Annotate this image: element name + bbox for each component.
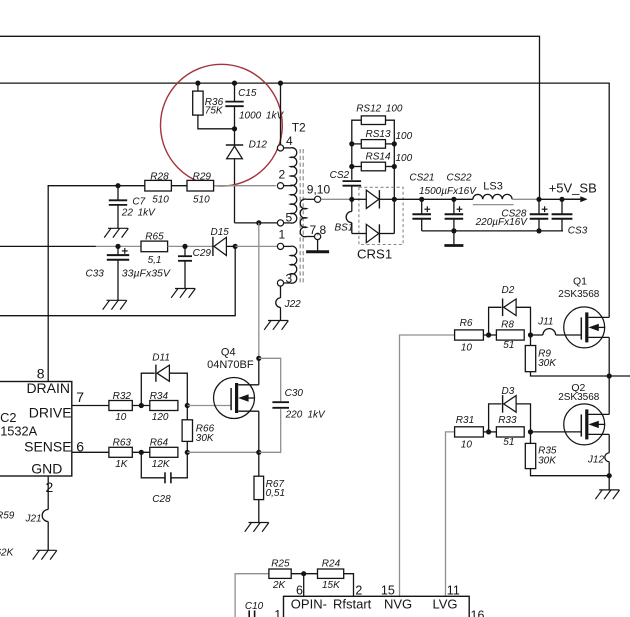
label C10	[245, 601, 264, 612]
svg-text:220: 220	[285, 410, 303, 421]
svg-text:R33: R33	[498, 415, 517, 426]
label R9 value 30K	[538, 358, 557, 369]
label CS28 value 220µFx16V	[475, 217, 529, 228]
transformer T2 core (dashed)	[300, 149, 303, 285]
node junction R67 top	[256, 450, 261, 455]
label C30	[285, 388, 304, 399]
svg-text:510: 510	[152, 194, 169, 205]
svg-text:GND: GND	[31, 461, 62, 477]
label IC2 DRIVE	[29, 405, 72, 421]
svg-text:R64: R64	[150, 438, 169, 449]
svg-text:RS12: RS12	[356, 103, 381, 114]
label C15 value 1000 1kV	[239, 111, 284, 122]
label LVG	[433, 597, 458, 612]
op-amp/controller IC2 box	[0, 382, 72, 477]
label R32 value 10	[115, 412, 127, 423]
wire drive-transformer row (y=185.7) with corner to IC2 pin8	[48, 186, 276, 382]
wire R25 left feed	[235, 574, 269, 617]
node junction Q4 drain / C30	[256, 356, 261, 361]
label R29 value 510	[193, 194, 210, 205]
wire RS left rail	[352, 120, 362, 180]
svg-text:2: 2	[355, 583, 362, 597]
capacitor CS21	[412, 199, 431, 231]
svg-text:T2: T2	[292, 120, 306, 134]
label Q1 type 2SK3568	[558, 289, 600, 300]
wire D12 to T2 pin5	[235, 222, 278, 224]
resistor R29	[187, 180, 214, 191]
label Rfstart	[333, 597, 372, 612]
wire R24 to Rfstart pin	[344, 574, 354, 597]
ground CS22 (earth bar)	[444, 231, 463, 246]
svg-text:15: 15	[381, 583, 395, 597]
svg-text:62K: 62K	[0, 547, 15, 558]
svg-text:1532A: 1532A	[0, 424, 37, 439]
resistor RS14	[352, 162, 395, 171]
label RS14 value 100	[396, 153, 413, 164]
svg-text:R6: R6	[460, 318, 473, 329]
svg-text:2SK3568: 2SK3568	[558, 289, 600, 300]
svg-text:11: 11	[447, 583, 460, 597]
label J12	[587, 454, 605, 465]
label R35	[538, 446, 557, 457]
label C29	[193, 248, 212, 259]
svg-text:Q4: Q4	[221, 347, 236, 359]
wire Q2 drain up	[608, 376, 610, 414]
node junction R64/C28/R66	[185, 450, 190, 455]
svg-text:J22: J22	[284, 299, 302, 310]
transistor Q4 04N70BF	[214, 378, 259, 419]
wire gate feed to Q4	[187, 405, 231, 407]
svg-text:R29: R29	[193, 171, 212, 182]
label CS28 plus	[542, 206, 548, 212]
wire top rail net2 (y=83)	[0, 83, 609, 317]
label pin 3	[286, 272, 293, 286]
capacitor C29	[178, 246, 192, 288]
node junction Q1 source / Q2 drain	[607, 373, 612, 378]
inductor LS3	[473, 194, 514, 204]
node junction CS22 top	[451, 197, 456, 202]
label pin 2 (connector)	[355, 583, 362, 597]
wire IC2 pin7 to R32	[72, 405, 109, 407]
node junction Q2 source / R35	[607, 473, 612, 478]
label R32	[113, 391, 132, 402]
transformer T2 secondary winding 9,10-7,8	[300, 199, 314, 237]
label CS21 value 1500µFx16V	[419, 186, 477, 197]
highlight red circle	[161, 64, 283, 186]
label R31	[456, 415, 474, 426]
wire sense row left (y=246.4)	[0, 245, 141, 247]
svg-text:1kV: 1kV	[138, 208, 157, 219]
node junction CS21 top	[419, 197, 424, 202]
svg-text:1: 1	[274, 608, 281, 617]
label C15	[238, 88, 257, 99]
wire Q4 drain up	[258, 358, 260, 385]
svg-text:51: 51	[503, 340, 514, 351]
wire R6-R8	[483, 334, 496, 336]
svg-text:5,1: 5,1	[148, 255, 162, 266]
svg-text:1kV: 1kV	[308, 410, 327, 421]
svg-text:10: 10	[115, 412, 127, 423]
svg-text:J12: J12	[587, 454, 605, 465]
label R36	[205, 97, 224, 108]
label C7	[132, 197, 145, 208]
svg-text:C30: C30	[285, 388, 304, 399]
capacitor C7	[109, 186, 127, 229]
jumper J22	[276, 286, 281, 320]
ground Q2 source	[595, 490, 619, 499]
label C30 value 220 1kV	[285, 410, 326, 421]
capacitor CS2	[343, 181, 362, 199]
node junction R33/D3/R35	[528, 429, 533, 434]
label Q2	[571, 382, 585, 394]
node junction rectifier output	[392, 197, 397, 202]
label Q2 type 2SK3568	[558, 392, 600, 403]
svg-text:7,8: 7,8	[310, 223, 327, 237]
svg-text:J11: J11	[537, 316, 553, 327]
node junction D15 anode	[233, 244, 238, 249]
label pin 9,10	[307, 182, 331, 196]
transistor Q1 2SK3568	[564, 307, 610, 348]
label CS28	[501, 209, 526, 220]
label R29	[193, 171, 212, 182]
jumper J11	[531, 329, 582, 335]
label NVG	[384, 597, 412, 612]
capacitor CS28	[530, 199, 549, 231]
svg-text:10: 10	[461, 343, 473, 354]
label C28	[152, 494, 171, 505]
svg-text:R31: R31	[456, 415, 474, 426]
diode D11 bypass loop	[141, 365, 187, 406]
svg-text:DRAIN: DRAIN	[26, 380, 70, 396]
svg-text:SENSE: SENSE	[24, 438, 71, 454]
resistor R64	[150, 447, 178, 457]
label IC2 GND	[31, 461, 62, 477]
label D3	[502, 386, 515, 397]
wire IC2 pin6 to R63	[72, 451, 109, 453]
svg-text:NVG: NVG	[384, 597, 412, 612]
label R25	[271, 559, 290, 570]
capacitor C30 snubber	[259, 358, 289, 452]
label R28	[150, 171, 169, 182]
svg-text:2: 2	[46, 479, 54, 495]
wire D15 junction down to DRAIN line	[0, 246, 235, 315]
wire RS right rail	[386, 120, 395, 233]
svg-text:6: 6	[296, 583, 303, 597]
label pin 1 (connector, cut)	[274, 608, 281, 617]
resistor RS12	[361, 116, 385, 125]
label CS3	[568, 225, 588, 236]
label R67 value 0,51	[266, 488, 285, 499]
wire Q1 source down	[608, 337, 610, 376]
capacitor CS3	[552, 199, 573, 231]
svg-text:LS3: LS3	[483, 181, 503, 193]
svg-text:510: 510	[193, 194, 210, 205]
label C33	[86, 269, 105, 280]
svg-text:22: 22	[121, 208, 134, 219]
label pin 16 (connector)	[471, 609, 485, 617]
label J11	[537, 316, 553, 327]
label R66	[196, 424, 215, 435]
resistor RS13	[352, 140, 395, 149]
svg-text:CS22: CS22	[447, 173, 472, 184]
transformer T2 pin 2	[277, 183, 292, 189]
transformer T2 primary winding 4-2-5	[291, 148, 297, 223]
svg-text:C7: C7	[132, 197, 145, 208]
svg-text:30K: 30K	[196, 433, 215, 444]
resistor R31	[455, 427, 484, 437]
node junction bottom rail CS22	[451, 228, 456, 233]
label C33 plus	[122, 248, 128, 254]
label CRS1	[357, 246, 392, 261]
label pin 1	[279, 228, 286, 242]
wire +5V_SB	[539, 198, 560, 200]
svg-text:2: 2	[279, 167, 286, 181]
svg-text:C33: C33	[86, 269, 105, 280]
ground C29	[171, 289, 195, 298]
svg-text:R59: R59	[0, 510, 15, 521]
svg-text:2SK3568: 2SK3568	[558, 392, 600, 403]
node junction R32/R34/D11	[139, 403, 144, 408]
label R33 value 51	[503, 437, 514, 448]
transformer T2 pin 5	[277, 220, 290, 226]
svg-text:5: 5	[286, 210, 293, 224]
svg-text:0,51: 0,51	[266, 488, 285, 499]
wire IC2 GND pin2	[47, 476, 49, 510]
resistor R9	[525, 335, 609, 376]
label pin 8	[37, 366, 45, 382]
svg-text:CS2: CS2	[330, 170, 350, 181]
svg-text:D11: D11	[152, 353, 170, 364]
node junction R31/R33/D3	[486, 429, 491, 434]
diode D12 (cathode up)	[226, 129, 243, 223]
label R8	[501, 320, 514, 331]
label R63	[113, 438, 132, 449]
label R31 value 10	[461, 440, 473, 451]
svg-text:100: 100	[396, 131, 413, 142]
label R8 value 51	[503, 340, 514, 351]
ground J22	[264, 321, 288, 330]
label R34	[150, 391, 169, 402]
label R24 value 15K	[322, 580, 341, 591]
diode D15 (cathode left)	[213, 237, 235, 256]
label RS13	[366, 129, 391, 140]
svg-text:C28: C28	[152, 494, 171, 505]
resistor R66	[182, 406, 192, 453]
label R65	[145, 231, 164, 242]
label R33	[498, 415, 517, 426]
svg-text:51: 51	[503, 437, 514, 448]
svg-text:J21: J21	[25, 514, 42, 525]
svg-text:D12: D12	[249, 140, 268, 151]
label D2	[502, 285, 515, 296]
transformer T2 pin 1	[277, 243, 290, 249]
capacitor C33 (electrolytic)	[107, 246, 129, 300]
svg-text:CS3: CS3	[568, 225, 588, 236]
node junction RS13 right	[392, 141, 397, 146]
svg-text:12K: 12K	[152, 459, 171, 470]
svg-text:30K: 30K	[538, 455, 557, 466]
resistor R35	[525, 432, 609, 476]
output arrow +5V_SB	[562, 196, 588, 202]
svg-text:8: 8	[37, 366, 45, 382]
label Q4 type 04N70BF	[207, 359, 254, 371]
svg-text:C10: C10	[245, 601, 264, 612]
label D15	[211, 227, 230, 238]
diode CRS1 top	[352, 190, 395, 208]
svg-text:100: 100	[396, 153, 413, 164]
wire Q4 source down	[258, 411, 260, 452]
node junction R63/R64/C28	[139, 450, 144, 455]
label IC2 DRAIN	[26, 380, 70, 396]
label pin 2	[46, 479, 54, 495]
capacitor CS22	[445, 199, 464, 231]
label IC2 name C2	[0, 410, 17, 425]
ground C7	[104, 228, 128, 237]
label R63 value 1K	[115, 459, 129, 470]
wire stub to right edge	[609, 375, 630, 377]
ground R67	[245, 523, 269, 532]
label RS13 value 100	[396, 131, 413, 142]
label J21	[25, 514, 42, 525]
svg-text:7: 7	[76, 389, 84, 405]
wire LVG feed	[446, 432, 455, 596]
svg-text:OPIN-: OPIN-	[291, 597, 327, 612]
wire R31-R33	[483, 431, 496, 433]
node junction RS14 left	[349, 164, 354, 169]
resistor R24	[318, 569, 344, 578]
svg-text:R63: R63	[113, 438, 132, 449]
wire top rail net1 (y=36)	[0, 36, 540, 199]
resistor R67	[254, 452, 264, 522]
capacitor C10 (cut)	[249, 610, 254, 617]
node junction C29 tap	[182, 244, 187, 249]
svg-text:1000: 1000	[239, 111, 262, 122]
resistor R36	[193, 83, 235, 129]
label R34 value 120	[152, 412, 169, 423]
resistor R34	[150, 401, 178, 411]
label BS1	[335, 223, 354, 234]
label R65 value 5,1	[148, 255, 162, 266]
transformer T2 winding 1-3	[291, 246, 297, 283]
diode D2 bypass loop	[489, 299, 531, 336]
label OPIN-	[291, 597, 327, 612]
svg-text:R34: R34	[150, 391, 169, 402]
wire sense row to R67 node	[187, 451, 258, 453]
transformer T2 pin 4	[277, 145, 290, 151]
svg-text:RS13: RS13	[366, 129, 391, 140]
label R6	[460, 318, 473, 329]
svg-text:75K: 75K	[205, 105, 224, 116]
svg-text:120: 120	[152, 412, 169, 423]
svg-text:Rfstart: Rfstart	[333, 597, 372, 612]
node junction C33 tap	[115, 244, 120, 249]
node junction R8/D2/R9	[528, 332, 533, 337]
label CS21 plus	[424, 206, 430, 212]
label R9	[538, 349, 551, 360]
svg-text:R8: R8	[501, 320, 514, 331]
resistor R32	[109, 401, 132, 411]
svg-text:DRIVE: DRIVE	[29, 405, 72, 421]
ground pin 7,8 (earth bar)	[306, 240, 329, 252]
svg-text:9,10: 9,10	[307, 182, 331, 196]
svg-text:CS21: CS21	[409, 173, 434, 184]
wire R63-R64	[132, 451, 150, 453]
label LS3	[483, 181, 503, 193]
svg-text:R24: R24	[322, 559, 341, 570]
node junction RS13 left	[349, 141, 354, 146]
wire R33 to Q2 gate	[531, 431, 582, 433]
svg-text:D3: D3	[502, 386, 515, 397]
transistor Q2 2SK3568	[564, 404, 610, 445]
node junction C15 top	[232, 81, 237, 86]
svg-text:04N70BF: 04N70BF	[207, 359, 254, 371]
label R59 (cut)	[0, 510, 15, 521]
label pin 15 (connector)	[381, 583, 395, 597]
svg-text:C15: C15	[238, 88, 257, 99]
label pin 7	[76, 389, 84, 405]
rectifier CRS1 dashed box	[359, 187, 403, 244]
label R59 value 62K (cut)	[0, 547, 15, 558]
label CS2	[330, 170, 350, 181]
label pin 7,8	[310, 223, 327, 237]
label C7 value 22 1kV	[121, 208, 156, 219]
svg-text:10: 10	[461, 440, 473, 451]
svg-text:4: 4	[286, 134, 293, 148]
svg-text:IC2: IC2	[0, 410, 17, 425]
label R28 value 510	[152, 194, 169, 205]
wire Q2 source to J12	[608, 434, 610, 453]
wire R32-R34	[132, 405, 150, 407]
label IC2 name 1532A	[0, 424, 37, 439]
svg-text:CRS1: CRS1	[357, 246, 392, 261]
label R64 value 12K	[152, 459, 171, 470]
node junction RS14 right	[392, 164, 397, 169]
svg-text:R28: R28	[150, 171, 169, 182]
label R66 value 30K	[196, 433, 215, 444]
capacitor C28 bypass loop	[141, 452, 187, 483]
resistor R63	[109, 447, 132, 457]
label R36 value 75K	[205, 105, 224, 116]
svg-text:100: 100	[386, 103, 403, 114]
node junction CS3 top	[559, 197, 564, 202]
resistor R6	[455, 330, 484, 340]
label R25 value 2K	[272, 580, 287, 591]
svg-text:1500µFx16V: 1500µFx16V	[419, 186, 477, 197]
svg-text:30K: 30K	[538, 358, 557, 369]
svg-text:BS1: BS1	[335, 223, 354, 234]
diode CRS1 bottom	[352, 224, 395, 242]
label R67	[266, 479, 285, 490]
node junction C15/R36/D12	[232, 126, 237, 131]
wire D15 junction to T2 pin1	[235, 245, 277, 247]
svg-text:R65: R65	[145, 231, 164, 242]
svg-text:R32: R32	[113, 391, 132, 402]
resistor R8	[496, 330, 524, 340]
svg-text:220µFx16V: 220µFx16V	[475, 217, 529, 228]
node junction CS28 top	[536, 197, 541, 202]
node junction R6/R8/D2	[486, 332, 491, 337]
wire R25-R24	[291, 573, 317, 575]
wire to ground	[608, 476, 610, 490]
label pin 2	[279, 167, 286, 181]
label pin 6	[76, 438, 84, 454]
label J22	[284, 299, 302, 310]
wire LS3 to +5V_SB node	[512, 198, 539, 200]
ground C33	[103, 300, 127, 309]
svg-text:R25: R25	[271, 559, 290, 570]
capacitor C15	[225, 83, 243, 129]
wire net2 to T2 pin4	[278, 81, 283, 145]
